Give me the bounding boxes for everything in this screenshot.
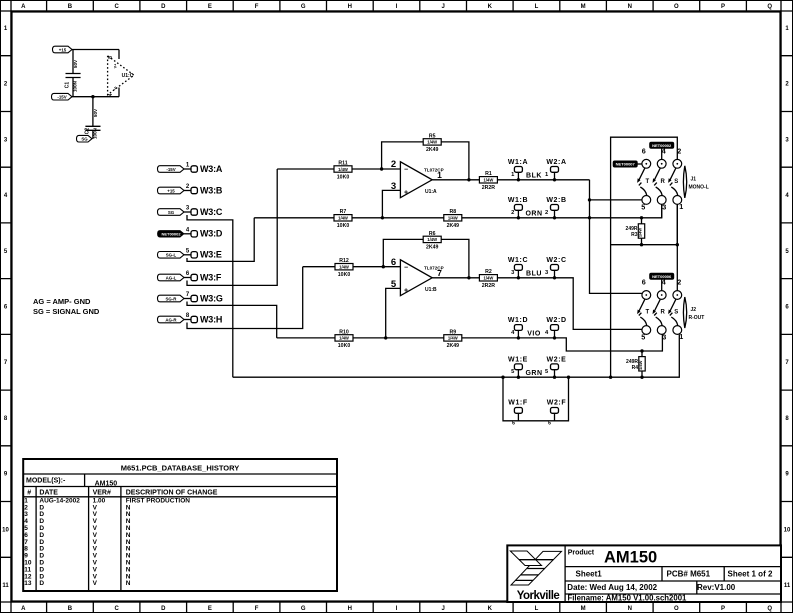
svg-text:11: 11 <box>784 583 791 589</box>
svg-text:6: 6 <box>642 146 646 155</box>
svg-text:10K0: 10K0 <box>338 272 351 278</box>
connector pin W2:D <box>545 317 567 338</box>
svg-text:R8: R8 <box>449 209 456 215</box>
svg-text:Date: Wed Aug 14, 2002: Date: Wed Aug 14, 2002 <box>567 583 657 592</box>
svg-text:N: N <box>628 4 632 10</box>
svg-text:R11: R11 <box>338 160 347 166</box>
svg-text:AM150: AM150 <box>604 549 657 567</box>
svg-text:S: S <box>674 310 678 316</box>
wire SG net from W3:C to ground rail <box>187 215 233 377</box>
svg-text:R4: R4 <box>632 365 639 371</box>
connector pin W3:H with flag AG-R <box>158 313 223 324</box>
svg-text:#: # <box>27 490 31 497</box>
wire -15V rail <box>72 95 119 98</box>
svg-text:VER#: VER# <box>93 490 111 497</box>
connector pin W3:E with flag SG-L <box>158 248 222 259</box>
svg-text:R: R <box>661 310 666 316</box>
svg-text:S: S <box>674 179 678 185</box>
svg-text:-15V: -15V <box>166 167 175 172</box>
connector pin W3:D with flag NET00002 <box>158 227 223 238</box>
svg-text:1/4W: 1/4W <box>448 216 458 221</box>
wire U1:B pin 5 to R10 line <box>384 288 400 339</box>
svg-text:Yorkville: Yorkville <box>517 590 560 602</box>
connector pin W2:E <box>545 357 566 378</box>
wire U1:A output BLK net <box>432 178 589 181</box>
svg-text:V+: V+ <box>114 63 118 69</box>
svg-text:10: 10 <box>784 527 791 533</box>
svg-text:D: D <box>39 580 44 587</box>
resistor R6 <box>423 231 441 251</box>
svg-text:P: P <box>721 606 725 612</box>
svg-text:R1: R1 <box>485 171 492 177</box>
svg-text:ORN: ORN <box>525 211 542 218</box>
svg-text:O: O <box>674 606 679 612</box>
resistor R11 <box>334 160 352 180</box>
resistor R3 body <box>626 224 645 238</box>
svg-text:1/4W: 1/4W <box>427 140 437 145</box>
wire BLK drop to J1 pin 5 and J2 pin 6 <box>588 180 642 294</box>
svg-text:8: 8 <box>108 56 114 59</box>
resistor R1 <box>479 171 497 191</box>
svg-text:3: 3 <box>662 202 666 211</box>
op-amp U1:B <box>391 257 444 296</box>
wire U1:A pin 3 to R7 line <box>381 190 401 219</box>
svg-text:B: B <box>68 4 73 10</box>
op-amp U1:C power pins (ghost) <box>108 50 134 97</box>
svg-text:Filename: AM150 V1.00.sch2001: Filename: AM150 V1.00.sch2001 <box>568 594 688 603</box>
title block <box>507 545 781 602</box>
svg-text:5: 5 <box>641 202 645 211</box>
connector pin W1:C <box>508 257 528 278</box>
svg-text:100N: 100N <box>93 127 98 139</box>
svg-text:R7: R7 <box>340 209 347 215</box>
svg-text:DESCRIPTION OF CHANGE: DESCRIPTION OF CHANGE <box>126 490 218 497</box>
svg-text:AG = AMP- GND: AG = AMP- GND <box>33 297 91 306</box>
svg-text:3: 3 <box>662 333 666 342</box>
power flag -15V <box>52 93 73 100</box>
svg-text:100N: 100N <box>72 80 77 92</box>
svg-text:+15: +15 <box>167 188 175 193</box>
svg-text:SG: SG <box>81 137 88 142</box>
svg-text:J1: J1 <box>691 176 697 182</box>
svg-text:2R2R: 2R2R <box>482 283 496 289</box>
svg-text:T: T <box>645 179 649 185</box>
svg-text:1/4W: 1/4W <box>427 237 437 242</box>
svg-text:Rev:V1.00: Rev:V1.00 <box>697 583 736 592</box>
svg-text:D: D <box>161 606 166 612</box>
svg-text:5: 5 <box>641 333 645 342</box>
svg-text:L: L <box>535 606 539 612</box>
svg-text:SG: SG <box>168 210 175 215</box>
net label NET00007 <box>613 161 642 167</box>
svg-text:L: L <box>535 4 539 10</box>
svg-text:H: H <box>348 4 352 10</box>
svg-text:SG-L: SG-L <box>166 253 177 258</box>
wire SG-L net from W3:E to R7 line <box>187 218 254 262</box>
svg-text:E: E <box>208 4 212 10</box>
wire U1:B feedback loop <box>383 239 469 277</box>
connector pin W2:F <box>547 399 567 426</box>
svg-text:PCB# M651: PCB# M651 <box>667 570 711 579</box>
wire +15 rail <box>72 49 119 51</box>
svg-text:1/4W: 1/4W <box>484 276 494 281</box>
svg-text:W3:G: W3:G <box>200 293 223 303</box>
svg-text:Q: Q <box>767 4 772 10</box>
svg-text:1/4W: 1/4W <box>338 216 348 221</box>
svg-text:4: 4 <box>108 93 114 96</box>
svg-text:T: T <box>645 310 649 316</box>
svg-text:FIRST PRODUCTION: FIRST PRODUCTION <box>126 497 191 504</box>
svg-text:U1:B: U1:B <box>425 287 437 293</box>
resistor R2 <box>479 269 497 289</box>
connector pin W3:B with flag +15 <box>158 184 223 195</box>
svg-text:Product: Product <box>568 550 595 557</box>
resistor R5 <box>423 133 441 153</box>
svg-text:U1:A: U1:A <box>425 189 437 195</box>
svg-text:W2:D: W2:D <box>546 317 566 324</box>
svg-text:1/4W: 1/4W <box>339 265 349 270</box>
svg-text:+: + <box>404 288 408 295</box>
svg-text:VIO: VIO <box>527 331 541 338</box>
svg-text:C: C <box>114 606 119 612</box>
svg-text:N: N <box>628 606 632 612</box>
svg-text:BLU: BLU <box>526 271 542 278</box>
svg-text:+15: +15 <box>59 47 67 52</box>
svg-text:C1: C1 <box>65 82 71 89</box>
svg-text:1: 1 <box>679 202 683 211</box>
svg-text:AG-L: AG-L <box>166 275 177 280</box>
svg-text:O: O <box>674 4 679 10</box>
connector pin W3:F with flag AG-L <box>158 271 222 282</box>
connector pin W1:E <box>508 357 528 378</box>
svg-text:MONO-L: MONO-L <box>689 184 709 190</box>
svg-text:AUG-14-2002: AUG-14-2002 <box>39 497 80 504</box>
svg-text:R3: R3 <box>631 232 638 238</box>
svg-text:K: K <box>488 4 493 10</box>
svg-text:W1:B: W1:B <box>508 197 528 204</box>
svg-text:GRN: GRN <box>525 370 542 377</box>
svg-text:M: M <box>581 4 586 10</box>
wire VIO net line R10 R9 to J2 pin 3 <box>277 335 663 353</box>
svg-text:SG-R: SG-R <box>166 296 178 301</box>
svg-text:R6: R6 <box>429 231 436 237</box>
svg-text:DATE: DATE <box>39 490 58 497</box>
svg-text:W2:B: W2:B <box>546 197 566 204</box>
resistor R10 <box>335 329 353 349</box>
jack J1 MONO-L <box>637 142 709 211</box>
svg-text:1/4W: 1/4W <box>338 167 348 172</box>
svg-text:G: G <box>301 606 306 612</box>
Yorkville logo <box>510 551 561 602</box>
jack J2 R-OUT <box>637 273 704 341</box>
svg-text:W3:B: W3:B <box>200 185 223 195</box>
svg-text:1/4W: 1/4W <box>638 228 643 238</box>
svg-text:11: 11 <box>2 583 9 589</box>
resistor R4 <box>641 351 643 377</box>
svg-text:10K0: 10K0 <box>337 174 350 180</box>
svg-text:W1:F: W1:F <box>508 399 528 406</box>
svg-text:2K49: 2K49 <box>447 223 460 229</box>
wire R12 input line to U1:B pin 6 <box>303 265 401 268</box>
svg-text:2: 2 <box>391 159 396 170</box>
svg-text:1/4W: 1/4W <box>638 360 643 370</box>
svg-text:W1:A: W1:A <box>508 159 528 166</box>
svg-text:+: + <box>404 190 408 197</box>
wire AG-L net from W3:F to R11 line <box>187 169 277 285</box>
svg-text:E: E <box>208 606 212 612</box>
svg-text:−: − <box>404 167 408 174</box>
wire ORN net line R7 R8 to J1 pin 3 <box>254 204 662 219</box>
svg-text:M: M <box>581 606 586 612</box>
svg-text:R9: R9 <box>449 329 456 335</box>
svg-text:NET00002: NET00002 <box>161 232 181 237</box>
svg-text:AG-R: AG-R <box>165 317 177 322</box>
svg-text:F: F <box>255 4 259 10</box>
svg-text:2K49: 2K49 <box>447 343 460 349</box>
svg-text:W2:A: W2:A <box>546 159 566 166</box>
svg-text:AM150: AM150 <box>95 480 118 487</box>
svg-text:G: G <box>301 4 306 10</box>
connector pin W2:C <box>545 257 567 278</box>
svg-text:4: 4 <box>662 278 666 287</box>
svg-text:C: C <box>114 4 119 10</box>
note AG/SG definitions <box>33 297 100 316</box>
svg-text:1/4W: 1/4W <box>339 336 349 341</box>
svg-text:6: 6 <box>391 257 396 268</box>
svg-text:R12: R12 <box>339 258 349 264</box>
revision history table <box>23 459 337 591</box>
svg-text:-15V: -15V <box>57 95 66 100</box>
svg-text:A: A <box>21 4 26 10</box>
wire SG-R net from W3:G to R10 line <box>187 302 277 338</box>
svg-text:50V: 50V <box>73 59 78 68</box>
wire U1:A feedback loop <box>382 142 469 180</box>
svg-text:Sheet 1 of 2: Sheet 1 of 2 <box>728 570 773 579</box>
svg-text:K: K <box>488 606 493 612</box>
svg-text:2R2R: 2R2R <box>482 185 496 191</box>
svg-text:W3:H: W3:H <box>200 314 222 324</box>
svg-text:6: 6 <box>642 278 646 287</box>
svg-text:W1:D: W1:D <box>508 317 528 324</box>
svg-text:SG = SIGNAL GND: SG = SIGNAL GND <box>33 307 100 316</box>
resistor R3 <box>641 218 643 245</box>
svg-text:J: J <box>441 606 444 612</box>
svg-text:W3:E: W3:E <box>200 250 222 260</box>
svg-text:W3:D: W3:D <box>200 229 223 239</box>
svg-text:2: 2 <box>511 210 514 216</box>
connector pin W2:A <box>545 159 567 180</box>
svg-text:4: 4 <box>662 146 666 155</box>
connector pin W3:C with flag SG <box>158 206 223 217</box>
wire J1 pin1 to ground segment <box>676 204 678 244</box>
wire U1:B output BLU net <box>432 276 642 329</box>
connector pin W1:F <box>508 399 528 426</box>
wire AG-R net from W3:H to R12 line <box>187 267 303 329</box>
svg-text:Q: Q <box>767 606 772 612</box>
svg-text:MODEL(S):-: MODEL(S):- <box>26 478 66 485</box>
svg-text:V: V <box>93 580 98 587</box>
svg-text:B: B <box>68 606 73 612</box>
connector pin W1:A <box>508 159 528 180</box>
connector pin W3:G with flag SG-R <box>158 292 223 303</box>
svg-text:J: J <box>441 4 444 10</box>
svg-text:2: 2 <box>677 146 681 155</box>
capacitor C1 <box>65 50 81 97</box>
wire J1 pin3 stub <box>661 204 663 218</box>
resistor R4 body <box>626 357 645 371</box>
svg-text:50V: 50V <box>93 108 98 117</box>
svg-text:1/4W: 1/4W <box>448 336 458 341</box>
svg-text:TL072CP: TL072CP <box>424 265 444 270</box>
op-amp U1:A <box>391 159 444 198</box>
svg-text:R: R <box>661 179 666 185</box>
svg-text:W2:F: W2:F <box>547 399 567 406</box>
svg-text:H: H <box>348 606 352 612</box>
svg-text:C2: C2 <box>85 128 91 135</box>
svg-text:2: 2 <box>545 210 548 216</box>
resistor R7 <box>334 209 352 229</box>
svg-text:10K0: 10K0 <box>338 343 351 349</box>
svg-text:TL072CP: TL072CP <box>424 167 444 172</box>
connector pin W1:B <box>508 197 528 218</box>
wire R11 input line to U1:A pin 2 <box>277 167 400 170</box>
svg-text:W1:C: W1:C <box>508 257 528 264</box>
svg-text:F: F <box>255 606 259 612</box>
svg-text:J2: J2 <box>691 307 697 313</box>
resistor R12 <box>335 258 353 278</box>
svg-text:P: P <box>721 4 725 10</box>
svg-text:Sheet1: Sheet1 <box>576 570 603 579</box>
svg-text:R10: R10 <box>339 329 349 335</box>
svg-text:W3:C: W3:C <box>200 207 223 217</box>
svg-text:10K0: 10K0 <box>337 223 350 229</box>
resistor R9 <box>444 329 462 349</box>
resistor R8 <box>444 209 462 229</box>
svg-text:W3:A: W3:A <box>200 164 223 174</box>
svg-text:R-OUT: R-OUT <box>689 315 705 321</box>
svg-text:W3:F: W3:F <box>200 272 222 282</box>
svg-text:W2:E: W2:E <box>547 357 567 364</box>
wire jack J1 ground frame <box>611 137 678 377</box>
svg-text:10: 10 <box>2 527 9 533</box>
connector pin W2:B <box>545 197 567 218</box>
svg-text:R2: R2 <box>485 269 492 275</box>
svg-text:1: 1 <box>679 332 683 341</box>
wire GRN ground rail <box>233 335 680 379</box>
svg-text:A: A <box>21 606 26 612</box>
svg-text:2K49: 2K49 <box>426 147 439 153</box>
svg-text:1/4W: 1/4W <box>484 178 494 183</box>
svg-text:U1:C: U1:C <box>122 73 134 79</box>
svg-text:M651.PCB_DATABASE_HISTORY: M651.PCB_DATABASE_HISTORY <box>121 464 240 473</box>
svg-text:W2:C: W2:C <box>546 257 566 264</box>
svg-text:D: D <box>161 4 166 10</box>
wire W1:F W2:F loop <box>503 377 569 421</box>
power flag +15 <box>53 46 73 53</box>
svg-text:2K49: 2K49 <box>426 245 439 251</box>
svg-text:N: N <box>126 580 131 587</box>
svg-text:−: − <box>404 265 408 272</box>
capacitor C2 <box>85 97 101 139</box>
svg-text:W1:E: W1:E <box>508 357 528 364</box>
svg-text:NET00007: NET00007 <box>616 162 636 167</box>
svg-text:2: 2 <box>677 278 681 287</box>
ground flag SG <box>77 135 93 142</box>
svg-text:13: 13 <box>24 580 32 587</box>
wire R3 ground rail segment <box>611 204 679 290</box>
svg-text:R5: R5 <box>429 133 436 139</box>
connector pin W3:A with flag -15V <box>158 163 223 174</box>
connector pin W1:D <box>508 317 528 338</box>
svg-text:BLK: BLK <box>526 173 542 180</box>
